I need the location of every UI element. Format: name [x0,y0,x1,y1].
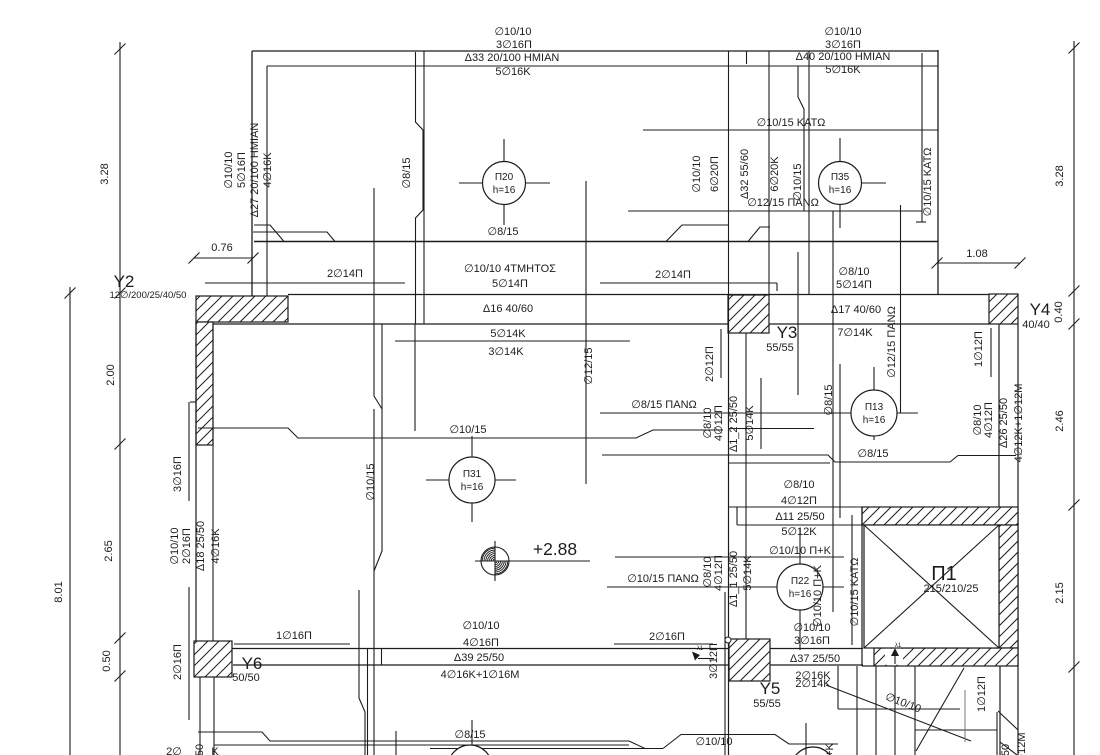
svg-text:2∅14Π: 2∅14Π [327,268,363,280]
svg-text:Π20: Π20 [495,172,514,183]
label o10/10 4tmitos [464,263,556,290]
rebar bar x382 [374,324,382,665]
rebar x840 [839,364,841,518]
labels D1_1 rotated group [702,551,754,607]
elevation mark +2.88 [475,539,590,581]
labels beam D39 [441,620,520,681]
dimension chain right 3.28/0.40/2.46/2.15 [1053,41,1080,755]
svg-text:4∅16Κ: 4∅16Κ [210,528,222,564]
partial label +K [824,742,836,755]
svg-text:2∅: 2∅ [166,746,182,755]
wall outline top edge [252,50,938,52]
svg-text:4∅16Κ: 4∅16Κ [262,152,274,188]
svg-text:2∅12Π: 2∅12Π [704,346,716,382]
label o8/15 on slab line [0,0,1,1]
column P20 [459,139,550,225]
svg-text:∅10/15 ΚΑΤΩ: ∅10/15 ΚΑΤΩ [922,148,934,217]
svg-text:2∅16Π: 2∅16Π [649,631,685,643]
arrow mark near Y5 [692,646,714,661]
wall left vertical top section [252,51,267,296]
label o8/15 bottom [455,720,486,750]
core wall P1 hatched bands [862,507,1018,666]
svg-text:0.50: 0.50 [101,650,113,671]
slab line o10/15 with jogs [198,428,723,438]
svg-text:+2.88: +2.88 [533,539,577,559]
rebar bar x424 straight [423,51,425,324]
svg-text:1∅12Π: 1∅12Π [976,676,988,712]
svg-text:2∅16Π: 2∅16Π [172,644,184,680]
svg-text:∅8/15: ∅8/15 [401,158,413,189]
line under 5o14K [395,340,630,342]
label o12/15 rotated [583,347,595,384]
rebar hook left a [254,225,284,242]
labels D1_2 rotated group [702,396,756,452]
svg-text:+Κ: +Κ [824,742,836,755]
label o12/15 pano rotated [886,306,898,378]
svg-text:h=16: h=16 [863,415,886,426]
svg-text:Y5: Y5 [760,679,781,698]
svg-text:Κ: Κ [211,746,219,755]
bottom slab line D [430,748,663,750]
shear wall Y6 hatched [194,641,232,677]
svg-text:∅10/10: ∅10/10 [695,736,732,748]
dimension 0.76 top left [189,242,259,264]
rebar bar x358 crank [359,590,368,755]
svg-text:50/50: 50/50 [232,672,260,684]
wall verticals below Y5 [724,592,726,755]
svg-text:50: 50 [194,744,206,755]
svg-text:∅10/10: ∅10/10 [494,26,531,38]
svg-text:∅10/10 4ΤΜΗΤΟΣ: ∅10/10 4ΤΜΗΤΟΣ [464,263,556,275]
svg-text:∅10/15: ∅10/15 [792,163,804,200]
wall left verticals mid [196,322,213,641]
stair line y730 [915,729,997,731]
line 1o16P with label [234,630,350,644]
label o10/15 kato rotated x858 [849,558,861,627]
svg-text:Y2: Y2 [114,272,135,291]
label o8/10 5o14P right [836,266,872,291]
svg-text:Δ11 25/50: Δ11 25/50 [775,511,824,523]
svg-text:0.76: 0.76 [211,242,232,254]
rebar hook right a [666,225,728,242]
arrow mark in P1 band [885,643,903,665]
line o10/15 pano lower with label [607,573,844,587]
svg-text:4∅12Π: 4∅12Π [983,402,995,438]
svg-text:2.15: 2.15 [1054,582,1066,603]
svg-text:Π35: Π35 [831,172,850,183]
svg-text:∅8/10: ∅8/10 [784,479,815,491]
dimension chain left outer 8.01 [53,287,76,755]
svg-text:6∅20Κ: 6∅20Κ [769,156,781,192]
svg-text:h=16: h=16 [493,185,516,196]
svg-text:∅10/15: ∅10/15 [365,463,377,500]
rebar bar x374-382 crank [374,188,382,755]
labels o10/10 P+K rotated [812,564,824,627]
svg-text:12∅/200/25/40/50: 12∅/200/25/40/50 [110,290,187,301]
stair treads [838,666,915,755]
line o10/15 kato with label [643,117,938,130]
svg-text:Y4: Y4 [1030,300,1051,319]
label beam D32 rotated [691,149,804,201]
svg-text:3∅16Π: 3∅16Π [794,635,830,647]
svg-text:λ1: λ1 [697,646,704,652]
svg-text:3∅16Π: 3∅16Π [825,39,861,51]
slab edge line y242 [254,241,938,243]
beam D11 outline [729,507,862,525]
svg-text:215/210/25: 215/210/25 [923,583,978,595]
wall vertical below Y3 [729,295,747,755]
svg-text:∅10/10: ∅10/10 [223,151,235,188]
line o8/15 right with jogs [602,448,1016,462]
label 5o14K 3o14K [488,328,526,358]
svg-text:5∅14Κ: 5∅14Κ [744,405,756,441]
label Y3 [766,323,797,354]
leader 3o16P with label [172,402,196,501]
dimension 1.08 top right [932,248,1026,269]
rebar bar x415 lower piece [414,324,416,431]
line 2o14P left with label [205,268,405,283]
beam band top line [288,294,989,296]
label o10/15 rotated x374 [365,463,377,500]
svg-text:Δ1_1 25/50: Δ1_1 25/50 [728,551,740,607]
svg-text:∅10/10 Π+Κ: ∅10/10 Π+Κ [812,564,824,627]
svg-text:Δ17 40/60: Δ17 40/60 [831,304,881,316]
svg-text:3∅16Π: 3∅16Π [172,456,184,492]
label beam D16 [483,303,533,315]
svg-text:Y6: Y6 [242,654,263,673]
stair vertical grey [964,690,966,742]
bottom slab edge polyline A [198,732,663,749]
stair diagonal wall a [998,711,1018,730]
svg-text:5∅14Π: 5∅14Π [836,279,872,291]
svg-text:Δ16 40/60: Δ16 40/60 [483,303,533,315]
label o10/10 bottom [695,736,732,748]
rebar x833 [832,211,834,612]
svg-text:Δ40 20/100 ΗΜΙΑΝ: Δ40 20/100 ΗΜΙΑΝ [796,51,891,63]
line y428 right [728,428,814,430]
label 3o12P rotated [708,643,720,679]
stair rebar diagonal with label [826,685,971,741]
label P1 [923,563,978,595]
svg-text:8.01: 8.01 [53,581,65,602]
svg-text:Δ27 20/100 ΗΜΙΑΝ: Δ27 20/100 ΗΜΙΑΝ [249,123,261,218]
svg-text:h=16: h=16 [789,589,812,600]
stair landing line [838,708,960,710]
svg-text:2.65: 2.65 [103,540,115,561]
rebar x900 [900,205,902,413]
svg-text:∅10/15 ΠΑΝΩ: ∅10/15 ΠΑΝΩ [627,573,699,585]
svg-text:Δ39 25/50: Δ39 25/50 [454,652,504,664]
svg-text:h=16: h=16 [829,185,852,196]
rebar x806 bottom [805,723,807,755]
svg-text:6∅20Π: 6∅20Π [709,156,721,192]
rebar bar x809 [808,51,810,294]
shear wall Y2 hatched [196,296,288,445]
svg-text:2.46: 2.46 [1054,410,1066,431]
svg-text:1.08: 1.08 [966,248,987,260]
svg-text:5∅14Κ: 5∅14Κ [742,555,754,591]
svg-text:2∅14Κ: 2∅14Κ [795,678,831,690]
label 7o14K [837,327,873,339]
labels beam D11 [775,479,824,538]
svg-text:∅8/15: ∅8/15 [858,448,889,460]
label beam D27 rotated left wall [223,123,274,218]
label block beam D33 [465,26,560,78]
rebar bar x798 with crank [798,66,804,211]
svg-text:4∅12Κ+1∅12Μ: 4∅12Κ+1∅12Μ [1013,384,1025,463]
svg-text:4∅16Κ+1∅16Μ: 4∅16Κ+1∅16Μ [441,669,520,681]
wall right vertical top section [916,50,938,294]
wall verticals below Y6 [200,677,214,755]
label 1o12P stairs [976,676,988,712]
label beam D17 [831,304,881,316]
svg-text:∅10/10: ∅10/10 [691,155,703,192]
rebar bar x586 [585,181,587,484]
line o12/15 pano with label [628,197,922,211]
svg-text:4∅16Π: 4∅16Π [463,637,499,649]
svg-text:1∅16Π: 1∅16Π [276,630,312,642]
svg-text:∅10/10: ∅10/10 [462,620,499,632]
label o8/15 under P20 [488,226,519,238]
svg-text:∅10/10: ∅10/10 [793,622,830,634]
beam D39 bottom line [233,664,863,666]
svg-text:h=16: h=16 [461,482,484,493]
svg-text:∅10/15 ΚΑΤΩ: ∅10/15 ΚΑΤΩ [849,558,861,627]
rebar x798 mid [797,252,799,395]
svg-text:2∅16Π: 2∅16Π [181,528,193,564]
beam D39 top line [231,648,863,650]
bottom slab edge polyline B [663,735,838,749]
svg-text:Π31: Π31 [463,469,482,480]
svg-text:3∅16Π: 3∅16Π [496,39,532,51]
rebar x852 [851,515,853,645]
svg-text:Π1: Π1 [931,563,957,585]
svg-text:55/55: 55/55 [766,342,794,354]
svg-text:Π22: Π22 [791,576,810,587]
wall vertical x1000 bottom [999,666,1001,755]
column bottom partial right [791,747,835,755]
label beam D37 [790,653,840,690]
labels D26 rotated right wall [972,384,1025,463]
wall right verticals mid [999,324,1018,755]
svg-text:7∅14Κ: 7∅14Κ [837,327,873,339]
svg-text:Y3: Y3 [777,323,798,342]
svg-text:5∅16Κ: 5∅16Κ [825,64,861,76]
partial labels bottom right [1000,733,1028,755]
svg-text:4∅12Π: 4∅12Π [781,495,817,507]
rebar bar x416 with crank [416,52,424,324]
wall inner top edge [267,65,938,67]
label Y6 [232,654,262,684]
line o10/10 P+K with label [615,545,844,557]
svg-text:Δ1_2 25/50: Δ1_2 25/50 [728,396,740,452]
wall middle verticals x728/769 top section [729,51,770,295]
svg-text:∅10/10: ∅10/10 [824,26,861,38]
label o10/15 kato rotated right [922,148,934,217]
label Y5 [753,679,781,710]
svg-text:∅12/15: ∅12/15 [583,347,595,384]
core wall P1 inner rect with X [864,525,999,648]
stair cut diagonal [916,668,964,751]
label Y4 [1022,300,1050,331]
svg-text:Π13: Π13 [865,402,884,413]
svg-text:∅12/15 ΠΑΝΩ: ∅12/15 ΠΑΝΩ [747,197,819,209]
line 2o16P with label [614,631,713,644]
label o8/15 rotated x410 [401,158,413,189]
svg-text:55/55: 55/55 [753,698,781,710]
labels o10/10 3o16P [793,622,830,647]
svg-text:4∅12Π: 4∅12Π [713,555,725,591]
rebar hook left b [253,232,335,242]
svg-text:5∅16Π: 5∅16Π [236,152,248,188]
svg-text:Δ32 55/60: Δ32 55/60 [739,149,751,199]
column P22 [777,528,823,650]
svg-text:∅8/15 ΠΑΝΩ: ∅8/15 ΠΑΝΩ [631,399,697,411]
svg-text:∅8/15: ∅8/15 [455,729,486,741]
rebar hook right b [748,227,770,242]
column P31 [426,436,516,522]
stair vertical x997 [996,712,998,755]
svg-text:5∅14Κ: 5∅14Κ [490,328,526,340]
svg-text:40/40: 40/40 [1022,319,1050,331]
svg-text:3∅12Π: 3∅12Π [708,643,720,679]
svg-text:Δ18 25/50: Δ18 25/50 [195,521,207,571]
svg-text:Δ33 20/100 ΗΜΙΑΝ: Δ33 20/100 ΗΜΙΑΝ [465,52,560,64]
svg-text:5∅12Κ: 5∅12Κ [781,526,817,538]
label o10/15 mid [449,424,486,436]
svg-text:∅10/15: ∅10/15 [449,424,486,436]
svg-text:5∅14Π: 5∅14Π [492,278,528,290]
label o8/15 rotated x832 [823,385,835,416]
leader 2o12P with label [704,329,721,382]
svg-text:3.28: 3.28 [1054,165,1066,186]
svg-text:1∅12Π: 1∅12Π [973,331,985,367]
svg-text:Δ37 25/50: Δ37 25/50 [790,653,840,665]
svg-text:∅10/15 ΚΑΤΩ: ∅10/15 ΚΑΤΩ [757,117,826,129]
rebar x761 [760,378,762,449]
shear wall Y5 hatched [725,637,770,681]
line y463 second [729,462,830,464]
bottom slab line C [214,744,629,746]
svg-text:50: 50 [1000,744,1012,755]
svg-text:∅8/10: ∅8/10 [839,266,870,278]
svg-text:∅10/10: ∅10/10 [169,527,181,564]
label beam D18 rotated [169,521,222,571]
svg-text:4∅12Π: 4∅12Π [713,405,725,441]
rebar x396 bottom [395,731,397,755]
svg-text:2.00: 2.00 [105,364,117,385]
column bottom partial left [448,745,492,755]
svg-text:2∅14Π: 2∅14Π [655,269,691,281]
svg-text:∅12Μ: ∅12Μ [1016,733,1028,755]
line 2o14P right with label [600,269,777,291]
svg-text:Δ26 25/50: Δ26 25/50 [998,398,1010,448]
svg-text:∅12/15 ΠΑΝΩ: ∅12/15 ΠΑΝΩ [886,306,898,378]
dimension chain left inner 3.28/2.00/2.65/0.50 [99,42,126,755]
leader 2o16P lower with label [172,587,189,720]
partial labels bottom left [166,744,219,755]
svg-text:3∅14Κ: 3∅14Κ [488,346,524,358]
column P35 [819,138,887,228]
beam band bottom line [213,323,989,325]
svg-text:λ1: λ1 [895,643,902,649]
svg-text:3.28: 3.28 [99,163,111,184]
label block beam D40 [796,26,891,76]
column P13 [851,367,897,440]
label 1o12P right wall [973,328,991,377]
svg-text:∅8/15: ∅8/15 [488,226,519,238]
stair diagonal wall b [1000,742,1017,755]
shear wall Y4 hatched [989,294,1018,324]
shear wall Y3 hatched [728,295,769,333]
svg-text:0.40: 0.40 [1053,301,1065,322]
label Y2 [110,272,187,301]
svg-text:5∅16Κ: 5∅16Κ [495,66,531,78]
line o8/15 pano with label [600,399,918,413]
